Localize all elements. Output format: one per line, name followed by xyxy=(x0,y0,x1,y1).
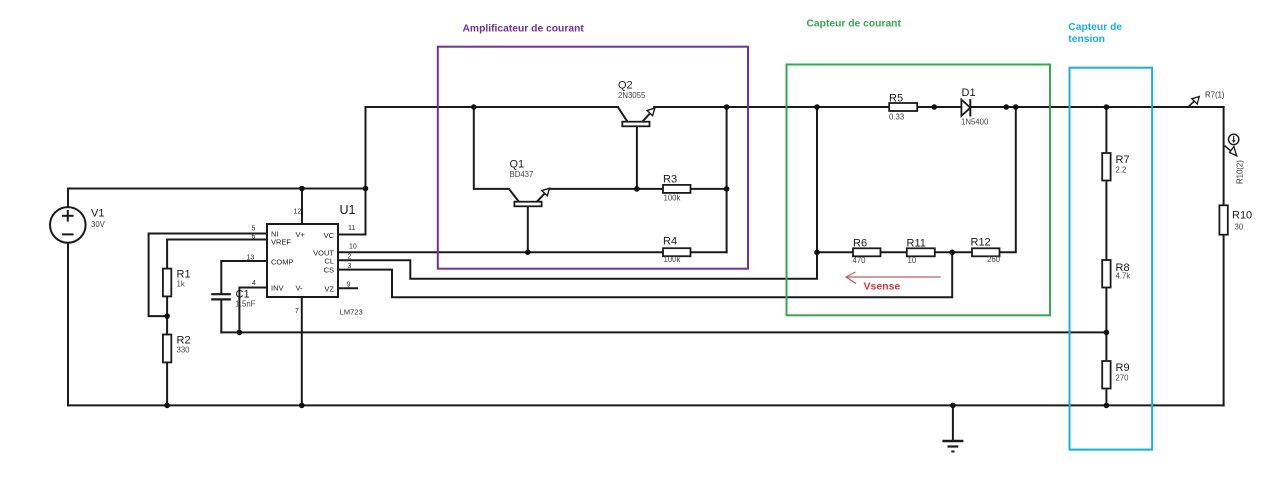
svg-text:30V: 30V xyxy=(91,220,106,229)
node V+ pin12 xyxy=(299,186,305,192)
svg-text:3: 3 xyxy=(348,263,352,270)
node rail mid xyxy=(931,104,937,110)
node rail R5 branch xyxy=(814,104,820,110)
node divider bottom xyxy=(1104,403,1110,409)
svg-text:U1: U1 xyxy=(340,203,356,217)
node rail after D1 xyxy=(1003,104,1009,110)
svg-text:CL: CL xyxy=(324,257,334,266)
node divider top xyxy=(1104,104,1110,110)
resistor R7 xyxy=(1102,153,1129,181)
svg-text:tension: tension xyxy=(1068,34,1105,45)
Vsense annotation arrow xyxy=(846,272,941,293)
svg-text:10: 10 xyxy=(908,256,917,265)
svg-text:LM723: LM723 xyxy=(340,308,363,317)
diode D1 1N5400 xyxy=(961,87,989,127)
resistor R11 xyxy=(907,238,935,266)
resistor R1 xyxy=(163,269,191,297)
svg-text:CS: CS xyxy=(324,266,334,275)
svg-text:D1: D1 xyxy=(962,87,976,99)
svg-text:2N3055: 2N3055 xyxy=(618,91,646,100)
wire V1 top to V+ rail xyxy=(68,189,366,208)
wire V1 bottom lead xyxy=(67,243,69,405)
wire R3 row xyxy=(637,188,727,190)
node divider feedback xyxy=(1104,330,1110,336)
wire NI route xyxy=(149,234,267,317)
wire CL route xyxy=(338,252,817,278)
wire R3 R4 right riser xyxy=(726,107,728,252)
wire C1 bottom lead xyxy=(220,300,222,332)
svg-text:VZ: VZ xyxy=(324,285,334,294)
box Amplificateur de courant xyxy=(438,24,748,269)
node R2 ground xyxy=(164,403,170,409)
svg-text:Amplificateur de courant: Amplificateur de courant xyxy=(463,24,585,35)
resistor R2 xyxy=(163,335,191,363)
svg-text:11: 11 xyxy=(348,225,355,232)
svg-text:4.7k: 4.7k xyxy=(1116,272,1131,281)
svg-text:100k: 100k xyxy=(664,255,681,264)
resistor R8 xyxy=(1102,260,1130,288)
svg-text:R4: R4 xyxy=(663,236,677,248)
svg-text:13: 13 xyxy=(247,255,255,262)
node junction dots xyxy=(164,104,1109,408)
svg-text:30: 30 xyxy=(1235,223,1244,232)
node R3 right xyxy=(724,186,730,192)
svg-text:Q2: Q2 xyxy=(618,79,633,91)
wire INV riser xyxy=(239,288,267,333)
svg-text:330: 330 xyxy=(177,346,191,355)
wire top rail right segment xyxy=(654,106,1223,108)
svg-text:6: 6 xyxy=(252,234,256,241)
svg-text:INV: INV xyxy=(271,284,284,293)
box Capteur de tension xyxy=(1068,22,1152,450)
svg-text:Capteur de courant: Capteur de courant xyxy=(807,19,902,30)
svg-text:VREF: VREF xyxy=(271,238,291,247)
node R6 left xyxy=(814,250,820,256)
wire Q1 emitter to Q2 base row xyxy=(549,188,637,190)
svg-text:R7: R7 xyxy=(1116,154,1130,166)
node R12 riser top xyxy=(1013,104,1019,110)
svg-text:R11: R11 xyxy=(907,238,926,250)
svg-text:1.5nF: 1.5nF xyxy=(236,300,256,309)
node R1 R2 junction xyxy=(164,313,170,319)
probe R10(2) xyxy=(1225,134,1245,184)
wire R6 row xyxy=(817,251,999,253)
svg-text:Q1: Q1 xyxy=(510,159,525,171)
svg-text:2: 2 xyxy=(348,254,352,261)
node ground tap xyxy=(950,403,956,409)
wire top rail left segment xyxy=(366,106,618,108)
svg-text:R7(1): R7(1) xyxy=(1205,91,1225,100)
svg-text:R6: R6 xyxy=(853,238,867,250)
node C1 INV junction xyxy=(237,330,243,336)
resistor R12 xyxy=(971,237,1001,265)
svg-text:V+: V+ xyxy=(296,230,306,239)
ground xyxy=(942,405,963,451)
svg-text:10: 10 xyxy=(349,244,357,251)
wire VZ stub pin9 xyxy=(338,287,357,289)
svg-text:1k: 1k xyxy=(177,280,185,289)
node V- ground xyxy=(299,403,305,409)
wire VC pin11 riser xyxy=(338,107,366,235)
resistor R5 xyxy=(889,93,917,122)
resistor R6 xyxy=(853,238,881,266)
svg-text:2.2: 2.2 xyxy=(1116,166,1127,175)
probe R7(1) xyxy=(1189,91,1225,107)
wire CS route xyxy=(338,252,952,297)
svg-text:260: 260 xyxy=(987,255,1001,264)
svg-text:4: 4 xyxy=(252,280,256,287)
svg-text:Capteur de: Capteur de xyxy=(1068,22,1122,33)
svg-text:7: 7 xyxy=(295,308,299,315)
wire VOUT row to R4 xyxy=(338,251,727,253)
node Q1 collector tap xyxy=(471,104,477,110)
svg-text:COMP: COMP xyxy=(271,258,294,267)
svg-text:BD437: BD437 xyxy=(510,170,534,179)
svg-text:R12: R12 xyxy=(971,237,991,249)
node rail R3R4 riser xyxy=(724,104,730,110)
wire R12 right riser xyxy=(999,107,1015,252)
svg-text:12: 12 xyxy=(294,209,302,216)
svg-text:Vsense: Vsense xyxy=(864,281,901,293)
resistor R3 xyxy=(663,174,691,203)
svg-text:R10(2): R10(2) xyxy=(1236,160,1245,184)
wire R2 bottom to ground rail xyxy=(166,362,168,405)
resistor R10 xyxy=(1219,205,1252,234)
svg-text:270: 270 xyxy=(1116,374,1130,383)
wire R10 branch xyxy=(1223,107,1225,405)
resistor R9 xyxy=(1102,361,1129,389)
wire Q2 base xyxy=(636,126,638,189)
resistor R4 xyxy=(663,236,691,265)
svg-text:0.33: 0.33 xyxy=(889,113,904,122)
svg-text:R9: R9 xyxy=(1116,362,1130,374)
op-amp U1 LM723 regulator box xyxy=(247,203,363,317)
node Q1 base on VOUT row xyxy=(525,249,531,255)
node R11 R12 junction xyxy=(949,250,955,256)
svg-text:V1: V1 xyxy=(91,208,104,220)
transistor Q1 BD437 xyxy=(509,159,550,207)
wire V- pin7 riser xyxy=(301,297,303,405)
svg-text:470: 470 xyxy=(853,256,867,265)
svg-text:5: 5 xyxy=(252,226,256,233)
svg-text:R5: R5 xyxy=(889,93,903,105)
svg-text:R10: R10 xyxy=(1232,210,1252,222)
wire INV feedback long xyxy=(221,331,1106,333)
wire COMP to C1 top xyxy=(221,261,267,293)
wire VREF to R1 xyxy=(167,240,267,269)
svg-text:V-: V- xyxy=(296,284,304,293)
transistor Q2 2N3055 xyxy=(618,79,655,126)
wire V+ pin12 riser xyxy=(301,189,303,225)
box Capteur de courant xyxy=(787,19,1051,316)
wire bottom ground rail xyxy=(68,404,1224,406)
capacitor C1 xyxy=(211,289,255,309)
voltage source V1 xyxy=(50,207,106,243)
wire Q1 collector branch xyxy=(474,107,509,189)
wire voltage divider chain xyxy=(1105,107,1107,405)
node VC riser xyxy=(363,186,369,192)
svg-text:100k: 100k xyxy=(664,194,681,203)
wire Q1 base drop xyxy=(527,206,529,252)
wire R1 bottom to R2 top xyxy=(166,296,168,334)
wire R5 left riser xyxy=(816,107,818,252)
node Q2 base row xyxy=(634,186,640,192)
svg-text:R3: R3 xyxy=(663,174,677,186)
svg-text:9: 9 xyxy=(347,282,351,289)
svg-text:1N5400: 1N5400 xyxy=(961,118,989,127)
svg-text:VC: VC xyxy=(324,231,335,240)
